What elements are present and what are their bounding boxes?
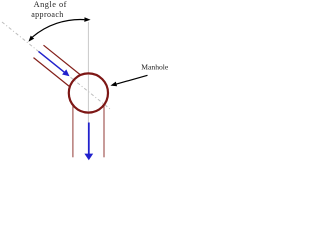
- svg-text:approach: approach: [31, 10, 64, 19]
- svg-text:Manhole: Manhole: [141, 62, 169, 71]
- svg-text:Angle of: Angle of: [34, 0, 67, 9]
